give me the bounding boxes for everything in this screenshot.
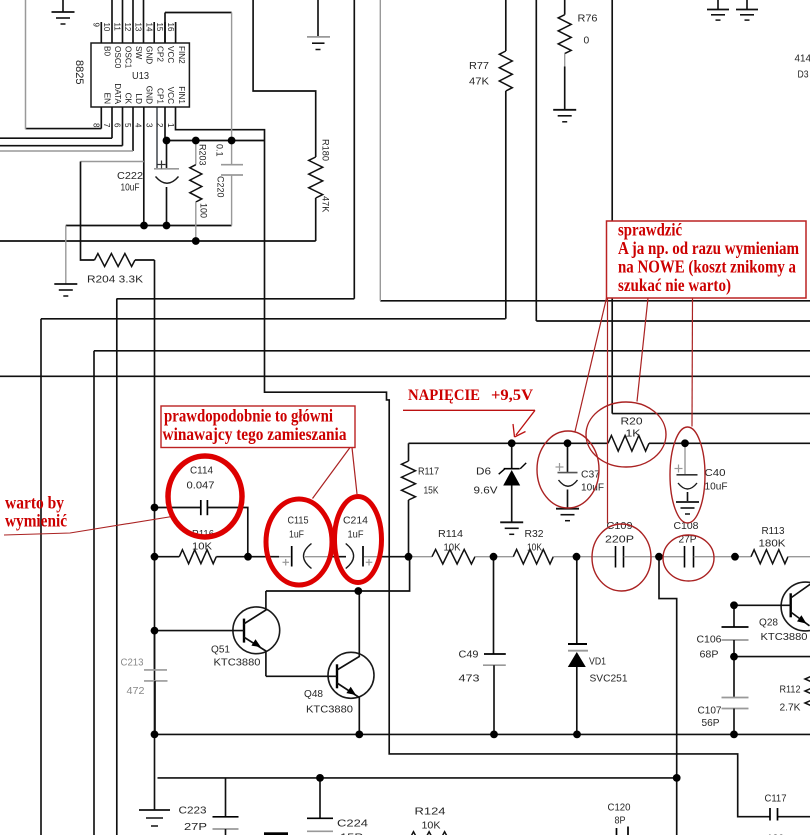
- svg-text:C114: C114: [190, 466, 213, 477]
- svg-text:7: 7: [102, 123, 111, 128]
- svg-text:9: 9: [92, 23, 101, 28]
- svg-text:R180: R180: [321, 139, 331, 161]
- svg-text:C37: C37: [581, 470, 600, 481]
- svg-text:10K: 10K: [444, 543, 461, 554]
- svg-text:B0: B0: [103, 46, 112, 56]
- svg-text:C223: C223: [179, 806, 207, 817]
- svg-text:8: 8: [92, 123, 101, 128]
- svg-text:15K: 15K: [424, 486, 439, 497]
- svg-text:D3: D3: [798, 70, 809, 81]
- svg-text:R20: R20: [621, 417, 643, 428]
- svg-text:warto by: warto by: [5, 493, 64, 513]
- svg-text:R204 3.3K: R204 3.3K: [87, 275, 143, 286]
- svg-text:C49: C49: [459, 650, 479, 661]
- svg-text:15: 15: [155, 23, 164, 32]
- svg-text:0: 0: [584, 36, 590, 47]
- svg-text:sprawdzić: sprawdzić: [618, 220, 682, 240]
- svg-text:C40: C40: [705, 468, 726, 479]
- svg-text:100: 100: [199, 203, 209, 218]
- svg-text:DATA: DATA: [113, 83, 122, 104]
- svg-text:VCC: VCC: [166, 46, 175, 63]
- svg-text:szukać nie warto): szukać nie warto): [618, 275, 731, 296]
- svg-text:OSC1: OSC1: [124, 46, 133, 69]
- svg-text:C106: C106: [697, 635, 722, 646]
- svg-text:prawdopodobnie to główni: prawdopodobnie to główni: [164, 406, 333, 426]
- svg-text:C224: C224: [337, 819, 368, 830]
- svg-text:R112: R112: [780, 685, 801, 696]
- svg-text:C107: C107: [698, 706, 722, 717]
- svg-text:C220: C220: [216, 176, 226, 198]
- svg-text:LD: LD: [134, 94, 143, 105]
- svg-text:180K: 180K: [759, 539, 786, 550]
- svg-text:1K: 1K: [626, 429, 641, 440]
- svg-text:8P: 8P: [615, 816, 626, 827]
- svg-text:3: 3: [144, 123, 153, 128]
- svg-text:A ja np. od razu wymieniam: A ja np. od razu wymieniam: [618, 238, 799, 258]
- svg-text:R124: R124: [415, 807, 446, 818]
- svg-text:6: 6: [113, 123, 122, 128]
- svg-text:R117: R117: [418, 467, 439, 478]
- svg-text:10K: 10K: [527, 543, 542, 554]
- svg-text:27P: 27P: [184, 822, 207, 833]
- svg-text:4: 4: [134, 123, 143, 128]
- svg-text:1uF: 1uF: [289, 530, 304, 541]
- svg-text:OSC0: OSC0: [113, 46, 122, 69]
- svg-text:R113: R113: [762, 526, 785, 537]
- svg-text:14: 14: [144, 23, 153, 32]
- svg-text:C120: C120: [608, 803, 631, 814]
- svg-text:GND: GND: [145, 86, 154, 104]
- svg-text:5: 5: [123, 123, 132, 128]
- svg-text:68P: 68P: [700, 650, 719, 661]
- svg-text:R203: R203: [198, 144, 208, 166]
- svg-text:473: 473: [459, 674, 480, 685]
- svg-text:1: 1: [166, 123, 175, 128]
- svg-text:2: 2: [155, 123, 164, 128]
- svg-text:1uF: 1uF: [348, 530, 364, 541]
- svg-text:KTC3880: KTC3880: [761, 632, 808, 643]
- svg-text:FIN2: FIN2: [177, 46, 186, 64]
- svg-text:12: 12: [123, 23, 132, 32]
- svg-text:Q51: Q51: [211, 645, 230, 656]
- svg-text:R76: R76: [578, 14, 598, 25]
- svg-text:13: 13: [134, 23, 143, 32]
- svg-text:10K: 10K: [422, 821, 441, 832]
- svg-text:C222: C222: [117, 171, 143, 182]
- svg-text:2.7K: 2.7K: [780, 703, 801, 714]
- svg-text:GND: GND: [145, 46, 154, 64]
- svg-text:10: 10: [102, 23, 111, 32]
- svg-text:16: 16: [166, 23, 175, 32]
- svg-text:VCC: VCC: [166, 87, 175, 104]
- svg-text:0.1: 0.1: [215, 144, 225, 157]
- svg-text:4141: 4141: [795, 54, 810, 65]
- svg-text:EN: EN: [103, 93, 112, 104]
- svg-text:wymienić: wymienić: [5, 511, 67, 531]
- svg-text:56P: 56P: [702, 718, 720, 729]
- svg-text:U13: U13: [132, 71, 149, 82]
- svg-text:10uF: 10uF: [121, 183, 140, 194]
- svg-text:KTC3880: KTC3880: [214, 658, 261, 669]
- svg-text:+9,5V: +9,5V: [491, 387, 533, 404]
- svg-text:C117: C117: [765, 794, 787, 805]
- svg-text:47K: 47K: [469, 77, 489, 88]
- svg-text:CP2: CP2: [155, 46, 164, 62]
- svg-text:KTC3880: KTC3880: [306, 705, 353, 716]
- svg-text:C115: C115: [288, 516, 309, 527]
- svg-text:8825: 8825: [73, 60, 85, 84]
- svg-text:10K: 10K: [192, 542, 212, 553]
- svg-text:0.047: 0.047: [187, 481, 215, 492]
- svg-text:SVC251: SVC251: [590, 674, 628, 685]
- svg-text:C213: C213: [121, 658, 144, 669]
- svg-text:FIN1: FIN1: [177, 86, 186, 104]
- svg-text:Q28: Q28: [759, 618, 778, 629]
- svg-text:220P: 220P: [605, 535, 634, 546]
- svg-text:SW: SW: [134, 46, 143, 59]
- svg-text:10uF: 10uF: [705, 482, 728, 493]
- svg-text:winawajcy tego zamieszania: winawajcy tego zamieszania: [163, 424, 347, 444]
- svg-text:9.6V: 9.6V: [474, 486, 498, 497]
- svg-text:CK: CK: [124, 93, 133, 105]
- svg-text:472: 472: [127, 686, 145, 697]
- svg-text:Q48: Q48: [304, 689, 323, 700]
- svg-text:D6: D6: [476, 467, 491, 478]
- svg-text:NAPIĘCIE: NAPIĘCIE: [408, 387, 480, 404]
- svg-text:47K: 47K: [321, 196, 331, 213]
- svg-text:R32: R32: [525, 529, 544, 540]
- svg-text:C214: C214: [343, 516, 368, 527]
- svg-text:R77: R77: [469, 61, 489, 72]
- svg-text:CP1: CP1: [155, 88, 164, 104]
- svg-text:R114: R114: [438, 529, 463, 540]
- svg-text:VD1: VD1: [589, 657, 606, 668]
- svg-text:11: 11: [113, 23, 122, 32]
